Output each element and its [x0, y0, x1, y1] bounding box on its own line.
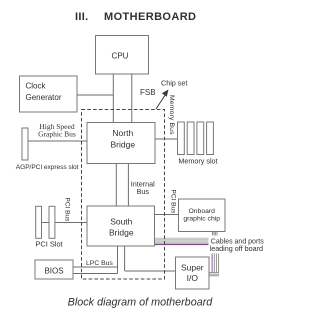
- svg-text:III.: III.: [75, 11, 88, 23]
- svg-text:South: South: [110, 217, 132, 227]
- svg-text:Graphic Bus: Graphic Bus: [38, 130, 76, 139]
- svg-text:MOTHERBOARD: MOTHERBOARD: [104, 11, 196, 23]
- svg-text:CPU: CPU: [112, 52, 129, 61]
- svg-text:AGP/PCI express slot: AGP/PCI express slot: [16, 164, 79, 171]
- svg-text:FSB: FSB: [140, 88, 156, 97]
- svg-text:North: North: [112, 128, 133, 138]
- svg-text:PCI Slot: PCI Slot: [36, 239, 63, 248]
- svg-text:Clock: Clock: [26, 82, 47, 91]
- svg-text:graphic chip: graphic chip: [183, 216, 220, 223]
- svg-text:Bus: Bus: [137, 187, 150, 196]
- svg-text:Memory slot: Memory slot: [178, 157, 217, 166]
- svg-text:I/O: I/O: [187, 273, 199, 283]
- svg-text:PCI Bus: PCI Bus: [170, 190, 177, 215]
- svg-text:Block diagram of motherboard: Block diagram of motherboard: [68, 296, 214, 308]
- svg-text:Bridge: Bridge: [111, 139, 136, 149]
- svg-text:Memory Bus: Memory Bus: [168, 95, 175, 135]
- svg-text:PCI Bus: PCI Bus: [64, 198, 71, 223]
- svg-text:Generator: Generator: [26, 93, 62, 102]
- svg-text:leading off board: leading off board: [210, 244, 263, 253]
- svg-text:Bridge: Bridge: [109, 227, 134, 237]
- svg-text:Onboard: Onboard: [188, 208, 215, 215]
- svg-text:LPC Bus: LPC Bus: [86, 260, 113, 267]
- svg-text:Super: Super: [181, 263, 204, 273]
- svg-text:Chip set: Chip set: [161, 78, 187, 87]
- svg-text:BIOS: BIOS: [44, 267, 63, 276]
